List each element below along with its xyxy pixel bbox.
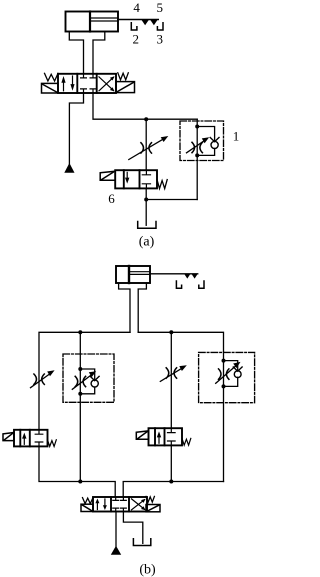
unit1 check valve ball <box>211 141 218 148</box>
left unit branch line <box>79 332 81 481</box>
valve V1 body (3-pos 4-way) <box>58 74 116 93</box>
svg-text:2: 2 <box>133 32 140 47</box>
svg-text:(b): (b) <box>139 563 156 577</box>
piston A1 <box>89 12 91 32</box>
left unit bottom node <box>78 392 82 396</box>
V2 left position arrows <box>95 499 107 511</box>
pressure source triangle (b) <box>111 546 121 555</box>
bottom valve V2 body (3-pos 4-way) <box>93 497 147 512</box>
left throttle valve (b) arrow <box>31 373 52 388</box>
left 2/2 valve body <box>14 430 48 447</box>
trip dog triangle left <box>141 20 149 26</box>
throttle valve (a) arcs <box>141 143 152 153</box>
valve6 left position arrow (down) <box>126 172 128 178</box>
V1 left solenoid <box>42 83 59 93</box>
node rail right / throttle branch <box>169 330 173 334</box>
V2 right spring <box>146 496 154 502</box>
unit1 branch line <box>196 119 198 199</box>
bottom rail right segment <box>123 482 223 498</box>
wire V2 P-port to pressure source <box>115 512 117 547</box>
cylinder mount / pipe T outline right <box>93 32 105 74</box>
V1 centre position blocked ports <box>81 74 96 93</box>
tank (a) <box>138 222 156 229</box>
middle 2/2 valve arrow (up) <box>158 437 160 443</box>
middle 2/2 valve solenoid <box>136 431 148 439</box>
cylinder B1 body <box>116 266 150 283</box>
limit switch b <box>131 23 137 30</box>
V1 left position arrows <box>61 76 74 91</box>
limit switch d (b) <box>199 281 204 288</box>
piston rod B1 <box>130 271 150 273</box>
unit1 throttle arrow <box>187 140 207 153</box>
unit1 check valve seat <box>210 138 219 142</box>
limit switch b (b) <box>176 281 181 288</box>
left throttle valve (b) arcs <box>34 374 44 384</box>
node left assembly at bottom rail <box>78 480 82 484</box>
unit1 bottom node <box>195 153 199 157</box>
cylinder A1 body <box>66 12 119 32</box>
right unit top node <box>222 359 226 363</box>
wire V2 T-port to tank <box>123 512 142 544</box>
wire left valve bottom to rail <box>39 446 115 497</box>
node at throttle branch <box>144 117 148 121</box>
right unit throttle arcs <box>219 369 229 379</box>
cylinder mount T outline left (b) <box>119 283 130 332</box>
right unit check ball <box>234 371 241 378</box>
top rail right (b) <box>138 332 223 352</box>
left unit top node <box>78 367 82 371</box>
trip triangle right (b) <box>192 274 198 279</box>
pressure source triangle <box>64 163 74 173</box>
rod extension line (b) <box>150 273 198 275</box>
valve6 right position blocked ports <box>142 170 150 188</box>
dashed enclosure of unit 1 <box>180 121 224 161</box>
node rail left / assembly branch <box>78 330 82 334</box>
svg-text:(a): (a) <box>139 235 155 250</box>
valve 6 body (2-pos 2-way) <box>115 170 157 188</box>
right unit bottom node <box>222 384 226 388</box>
left 2/2 valve blocked ports <box>35 430 43 447</box>
left 2/2 valve spring <box>48 440 57 447</box>
left 2/2 valve arrow (up) <box>23 439 25 445</box>
V1 left spring <box>45 73 59 81</box>
left unit check ball <box>91 380 98 387</box>
trip triangle left (b) <box>184 274 190 279</box>
right unit branch line <box>223 352 225 482</box>
node middle valve at bottom rail <box>169 480 173 484</box>
V2 right solenoid <box>146 505 160 512</box>
wire throttle branch down to valve 6 <box>145 119 147 170</box>
V2 left spring <box>83 498 94 504</box>
V2 centre blocked ports <box>113 497 127 512</box>
left unit check loop <box>80 369 94 394</box>
right unit check seat <box>233 367 242 371</box>
wire middle valve bottom <box>170 445 172 481</box>
svg-text:1: 1 <box>233 129 240 144</box>
unit1 check valve loop <box>197 127 214 156</box>
left speed-control unit enclosure <box>63 354 114 402</box>
middle 2/2 valve blocked ports <box>168 428 176 445</box>
middle 2/2 valve spring <box>182 438 191 445</box>
valve6 spring <box>157 180 167 189</box>
middle 2/2 valve body <box>149 428 183 445</box>
right throttle valve (b) arcs <box>166 368 176 378</box>
limit switch d <box>157 23 163 30</box>
cylinder mount / pipe T outline left <box>69 32 83 74</box>
svg-text:5: 5 <box>156 0 163 15</box>
left 2/2 valve solenoid <box>3 433 14 441</box>
right throttle valve (b) arrow <box>160 367 183 381</box>
right unit throttle arrow <box>216 365 238 384</box>
trip dog triangle right <box>150 20 158 26</box>
piston rod A1 (double line) <box>91 17 118 19</box>
wire P-port elbow to pressure source <box>69 93 83 164</box>
V1 right solenoid <box>116 82 135 93</box>
tank (b) <box>133 539 150 546</box>
piston B1 <box>128 266 130 283</box>
svg-text:3: 3 <box>156 32 163 47</box>
node valve6 bottom <box>144 198 148 202</box>
right speed-control unit enclosure <box>199 352 255 402</box>
cylinder mount T outline right (b) <box>138 283 146 332</box>
wire unit1 bottom to valve6 bottom <box>146 199 197 201</box>
piston rod extension line <box>118 19 158 21</box>
left unit throttle arcs <box>75 376 85 386</box>
unit1 throttle arcs <box>192 142 202 152</box>
wire B-port down and right <box>93 93 197 119</box>
right throttle branch wire <box>170 332 172 428</box>
V2 right position crossed arrows <box>132 499 146 511</box>
V2 left solenoid <box>81 504 93 511</box>
valve6 solenoid <box>100 171 115 180</box>
V1 right spring <box>118 73 129 80</box>
left unit check seat <box>90 376 99 380</box>
unit1 top node <box>195 125 199 129</box>
right unit check loop <box>224 361 238 387</box>
wire valve6 bottom <box>145 188 147 225</box>
svg-text:4: 4 <box>133 0 140 15</box>
top rail left (b) <box>39 332 130 430</box>
V1 right position crossed arrows <box>99 76 115 91</box>
svg-text:6: 6 <box>108 191 115 206</box>
throttle valve (a) adjust arrow <box>129 138 165 160</box>
left unit throttle arrow <box>72 374 93 390</box>
